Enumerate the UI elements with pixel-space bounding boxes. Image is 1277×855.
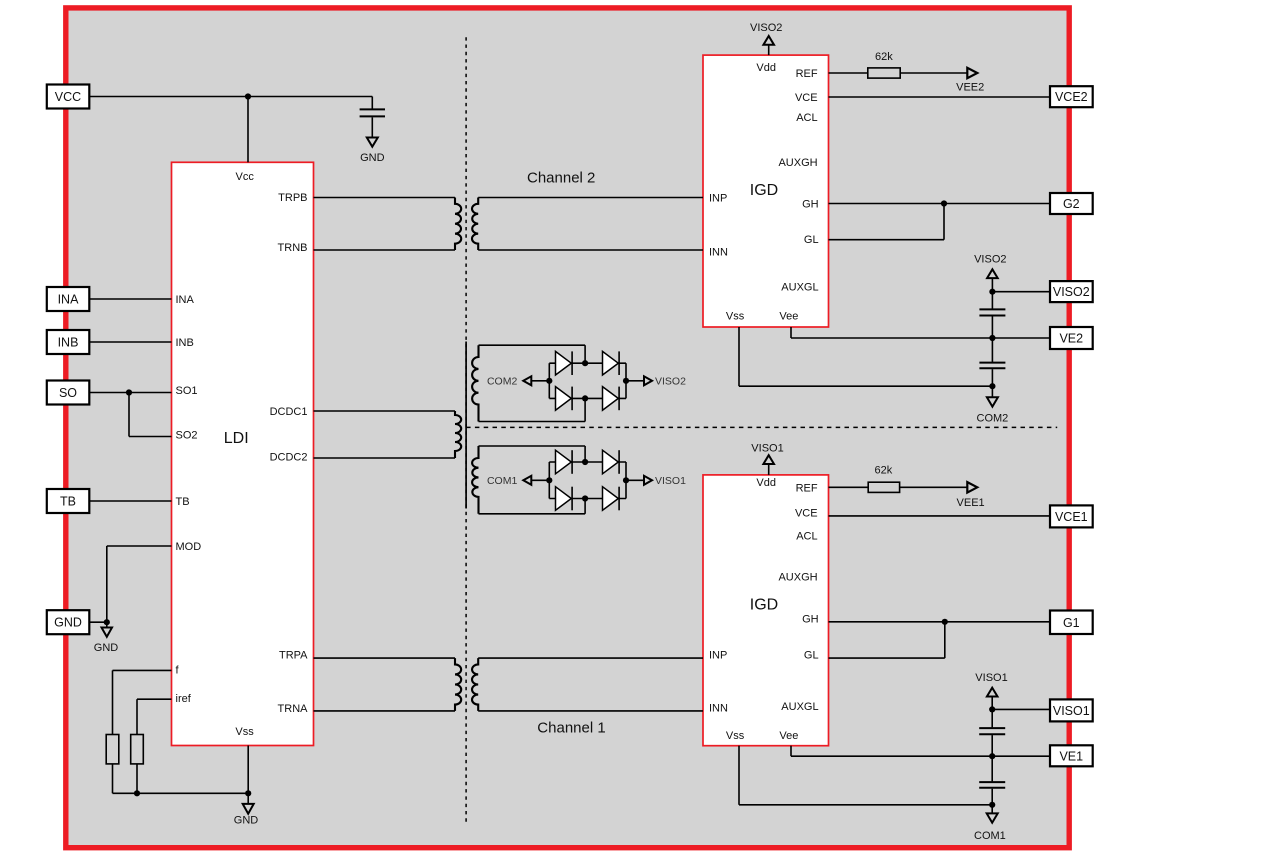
svg-text:ACL: ACL [796, 112, 817, 124]
svg-text:INB: INB [176, 337, 194, 349]
svg-text:IGD: IGD [750, 596, 778, 613]
svg-text:GND: GND [234, 814, 259, 826]
svg-text:TRPB: TRPB [278, 192, 307, 204]
svg-text:Vss: Vss [235, 726, 254, 738]
svg-text:VISO2: VISO2 [655, 376, 686, 388]
svg-text:VISO2: VISO2 [750, 22, 782, 34]
svg-text:GH: GH [802, 198, 819, 210]
svg-text:VEE2: VEE2 [956, 81, 984, 93]
svg-text:AUXGH: AUXGH [778, 571, 817, 583]
svg-text:COM1: COM1 [974, 830, 1006, 842]
svg-text:TB: TB [60, 495, 76, 509]
svg-text:TRNB: TRNB [278, 242, 308, 254]
svg-text:INA: INA [58, 293, 80, 307]
svg-text:INA: INA [176, 294, 195, 306]
svg-text:VCC: VCC [55, 90, 81, 104]
svg-text:iref: iref [176, 693, 192, 705]
svg-text:AUXGL: AUXGL [781, 701, 818, 713]
svg-text:TB: TB [176, 496, 190, 508]
svg-text:VCE: VCE [795, 507, 818, 519]
svg-text:COM2: COM2 [977, 412, 1009, 424]
svg-text:VISO2: VISO2 [974, 253, 1006, 265]
svg-text:AUXGL: AUXGL [781, 281, 818, 293]
svg-text:Vdd: Vdd [756, 477, 776, 489]
svg-text:Vcc: Vcc [236, 171, 255, 183]
svg-text:Vss: Vss [726, 730, 745, 742]
svg-text:VISO1: VISO1 [655, 475, 686, 487]
svg-text:VE1: VE1 [1059, 749, 1083, 763]
svg-text:SO2: SO2 [176, 429, 198, 441]
svg-text:TRNA: TRNA [278, 703, 309, 715]
svg-text:Channel 1: Channel 1 [537, 720, 605, 737]
svg-text:VCE1: VCE1 [1055, 510, 1088, 524]
svg-text:G2: G2 [1063, 197, 1080, 211]
svg-text:VISO1: VISO1 [975, 672, 1007, 684]
svg-text:VISO1: VISO1 [1053, 704, 1090, 718]
svg-text:SO: SO [59, 386, 77, 400]
svg-text:AUXGH: AUXGH [778, 157, 817, 169]
svg-text:INN: INN [709, 702, 728, 714]
svg-text:COM1: COM1 [487, 475, 517, 487]
svg-text:ACL: ACL [796, 531, 817, 543]
svg-text:VCE2: VCE2 [1055, 90, 1088, 104]
svg-text:SO1: SO1 [176, 385, 198, 397]
svg-text:Channel 2: Channel 2 [527, 170, 595, 187]
svg-text:INB: INB [58, 336, 79, 350]
svg-text:GL: GL [804, 649, 819, 661]
svg-text:GND: GND [94, 642, 119, 654]
svg-text:IGD: IGD [750, 182, 778, 199]
svg-text:GND: GND [360, 152, 385, 164]
svg-text:Vee: Vee [779, 310, 798, 322]
svg-text:62k: 62k [875, 51, 893, 63]
svg-text:INP: INP [709, 192, 727, 204]
svg-text:VE2: VE2 [1059, 332, 1083, 346]
svg-text:REF: REF [796, 482, 818, 494]
svg-text:GND: GND [54, 616, 82, 630]
svg-text:TRPA: TRPA [279, 649, 308, 661]
svg-text:GL: GL [804, 234, 819, 246]
svg-text:INP: INP [709, 650, 727, 662]
svg-text:DCDC2: DCDC2 [270, 451, 308, 463]
svg-text:Vdd: Vdd [756, 62, 776, 74]
svg-text:62k: 62k [875, 464, 893, 476]
svg-text:REF: REF [796, 68, 818, 80]
svg-text:LDI: LDI [224, 430, 249, 447]
svg-text:VISO1: VISO1 [751, 443, 783, 455]
svg-text:DCDC1: DCDC1 [270, 406, 308, 418]
svg-text:MOD: MOD [176, 541, 202, 553]
svg-text:Vss: Vss [726, 310, 745, 322]
svg-text:VCE: VCE [795, 92, 818, 104]
svg-text:VISO2: VISO2 [1053, 285, 1090, 299]
svg-text:Vee: Vee [779, 730, 798, 742]
svg-text:COM2: COM2 [487, 376, 517, 388]
svg-text:INN: INN [709, 246, 728, 258]
svg-text:GH: GH [802, 613, 819, 625]
svg-text:G1: G1 [1063, 616, 1080, 630]
svg-text:VEE1: VEE1 [957, 497, 985, 509]
